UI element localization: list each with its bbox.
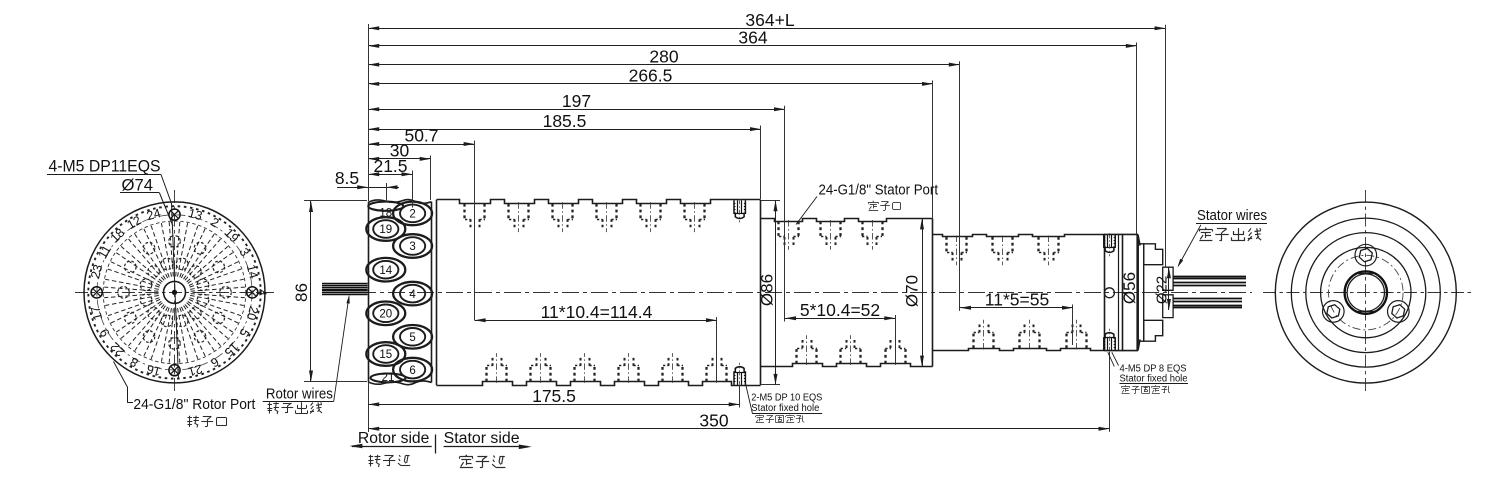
svg-text:Ø70: Ø70 [903, 275, 922, 307]
svg-text:Stator fixed hole: Stator fixed hole [1120, 373, 1188, 384]
svg-text:24-G1/8" Stator Port: 24-G1/8" Stator Port [819, 182, 939, 199]
svg-text:8.5: 8.5 [335, 168, 359, 188]
svg-text:266.5: 266.5 [629, 66, 673, 86]
svg-text:21.5: 21.5 [373, 156, 407, 176]
svg-text:Rotor side: Rotor side [358, 430, 430, 447]
label 4-M5 DP 8 EQS [1108, 352, 1188, 393]
stator face centerline horizontal [1263, 292, 1473, 294]
connector block bottom [1144, 320, 1163, 341]
stator face circle 3 [1306, 233, 1426, 353]
dimension extension lines [369, 24, 1166, 432]
svg-text:19: 19 [379, 224, 392, 236]
dimension 8.5 [335, 168, 399, 189]
label 24-G1/8 Stator Port [796, 182, 939, 225]
rotor face 4x M5 mounting bolts [91, 209, 258, 376]
rotor face outer circle [84, 202, 265, 383]
rotor face dashed ring inner [103, 221, 246, 364]
wire gland bottom [1163, 295, 1173, 318]
rotor face centerline vertical [174, 190, 176, 395]
connector block top [1144, 244, 1163, 265]
D56 bottom port holes [974, 320, 1087, 350]
svg-text:175.5: 175.5 [532, 386, 576, 406]
M5 fixing screw top of D86 [734, 199, 745, 222]
flange port 20 [366, 302, 405, 326]
leader 4-M5 to top bolt [161, 175, 179, 380]
rotor face centerline horizontal [75, 292, 274, 294]
rotor face bolt circle dashdot [97, 215, 252, 370]
svg-text:20: 20 [379, 309, 392, 321]
wire gland top [1163, 267, 1173, 290]
svg-text:50.7: 50.7 [404, 126, 438, 146]
svg-text:Ø74: Ø74 [122, 177, 154, 195]
rotor face port hole circles [118, 236, 232, 350]
svg-text:5*10.4=52: 5*10.4=52 [800, 300, 880, 320]
flange port 18 [368, 202, 403, 220]
leader stator wires [1178, 225, 1201, 268]
flange port 21 [371, 372, 406, 384]
leader 24-G1/8 rotor port [114, 362, 134, 403]
stator face 3 hex bolts [1323, 244, 1410, 322]
dimension D56 [1120, 235, 1141, 351]
top dimension chain 364L 364 280 266.5 197 185.5 50.7 30 21.5 [368, 10, 1165, 176]
svg-text:3: 3 [409, 241, 415, 253]
svg-text:Rotor wires: Rotor wires [266, 386, 333, 403]
svg-text:2: 2 [409, 209, 415, 221]
label stator wires chinese [1199, 228, 1261, 241]
flange port 19 [366, 217, 405, 241]
svg-text:6: 6 [409, 365, 415, 377]
flange port 2 [393, 202, 432, 226]
connector plate [1137, 244, 1144, 341]
rotor face dashed ring outer [88, 206, 260, 378]
dimension D22 [1154, 267, 1171, 310]
stator face center bore [1345, 271, 1387, 313]
dimension D86 [758, 200, 781, 385]
cap face hole [1104, 288, 1114, 298]
svg-text:Ø22: Ø22 [1154, 276, 1171, 304]
svg-text:Stator wires: Stator wires [1197, 207, 1267, 224]
leader diameter 74 [160, 193, 174, 226]
rotor wires bundle [322, 284, 368, 295]
svg-text:11*10.4=114.4: 11*10.4=114.4 [541, 302, 653, 322]
svg-text:350: 350 [699, 410, 728, 430]
svg-text:21: 21 [382, 372, 395, 384]
slip ring body D86 outline [437, 200, 761, 386]
M5 fixing screw bottom of D56 (4-M5) [1104, 329, 1115, 352]
label stator port chinese [868, 201, 900, 211]
D70 bottom port holes [797, 335, 906, 365]
svg-text:364: 364 [738, 28, 767, 48]
dimension 350 [368, 410, 1109, 430]
svg-text:2-M5 DP 10 EQS: 2-M5 DP 10 EQS [751, 392, 822, 403]
svg-text:185.5: 185.5 [543, 111, 587, 131]
svg-text:Stator side: Stator side [444, 430, 520, 447]
label Stator wires [1196, 207, 1267, 224]
stator face circle 4 [1321, 247, 1411, 337]
label stator side chinese [460, 455, 506, 468]
svg-text:4: 4 [255, 289, 269, 296]
flange port 4 [393, 282, 432, 306]
body section D70 outline [761, 218, 933, 366]
svg-text:Stator fixed hole: Stator fixed hole [751, 403, 819, 414]
M5 fixing screw top of D56 (4-M5) [1104, 233, 1115, 256]
D86 top port rings hidden holes [465, 202, 706, 232]
label rotor port chinese [187, 416, 226, 428]
rotor wires label [263, 386, 334, 403]
dimension 11x10.4 [475, 302, 717, 322]
svg-text:15: 15 [379, 349, 392, 361]
stator wires bundles [1173, 277, 1246, 308]
svg-text:24-G1/8" Rotor Port: 24-G1/8" Rotor Port [133, 396, 256, 413]
svg-text:4-M5 DP11EQS: 4-M5 DP11EQS [49, 158, 161, 176]
D70 top port holes [779, 220, 883, 250]
label diameter 74 [120, 177, 160, 195]
dimension 175.5 [368, 386, 740, 406]
dimension 11x5 [960, 289, 1073, 309]
M5 fixing screw bottom of D86 (2-M5) [734, 363, 745, 386]
D86 bottom port rings hidden holes [487, 353, 728, 383]
dimension 86 flange [292, 201, 367, 382]
label Stator side [444, 430, 532, 449]
label rotor side chinese [368, 455, 410, 467]
flange port 3 [393, 234, 432, 258]
svg-text:280: 280 [649, 46, 678, 66]
label 4-M5 DP11EQS [47, 158, 161, 176]
rotor-stator divider [435, 435, 437, 454]
rotor flange outline [368, 200, 432, 385]
svg-text:86: 86 [292, 283, 311, 302]
stator face centerline vertical [1365, 190, 1367, 395]
svg-text:197: 197 [562, 91, 591, 111]
label 2-M5 DP 10 EQS [745, 381, 823, 423]
svg-text:4: 4 [409, 289, 416, 301]
svg-text:14: 14 [379, 265, 392, 277]
stator face outer circle [1275, 202, 1456, 383]
dimension D70 [903, 218, 925, 366]
D56 top port holes [947, 236, 1060, 266]
flange port 6 [393, 358, 432, 382]
flange port 15 [366, 342, 405, 366]
label Rotor side [349, 430, 431, 448]
label 24-G1/8 Rotor Port [133, 396, 256, 413]
svg-text:5: 5 [409, 332, 415, 344]
flange port 5 [393, 325, 432, 349]
svg-text:Ø86: Ø86 [758, 274, 777, 306]
svg-text:11*5=55: 11*5=55 [985, 289, 1049, 309]
dimension 5x10.4 [785, 300, 895, 320]
stator face bolt circle dashdot [1329, 255, 1404, 330]
rotor face center boss circle [164, 281, 186, 303]
rotor wires leader [334, 295, 350, 402]
stator face circle 2 [1291, 218, 1440, 367]
svg-text:Ø56: Ø56 [1120, 272, 1139, 304]
rotor face 24 port passages radial dashed lines [104, 222, 245, 363]
main axis centerline [330, 292, 1252, 294]
flange port 14 [366, 258, 405, 282]
rotor face ring position numbers [88, 206, 268, 379]
body section D56 outline [933, 234, 1105, 351]
stator end cap [1104, 234, 1137, 350]
rotor wires chinese [267, 402, 322, 414]
